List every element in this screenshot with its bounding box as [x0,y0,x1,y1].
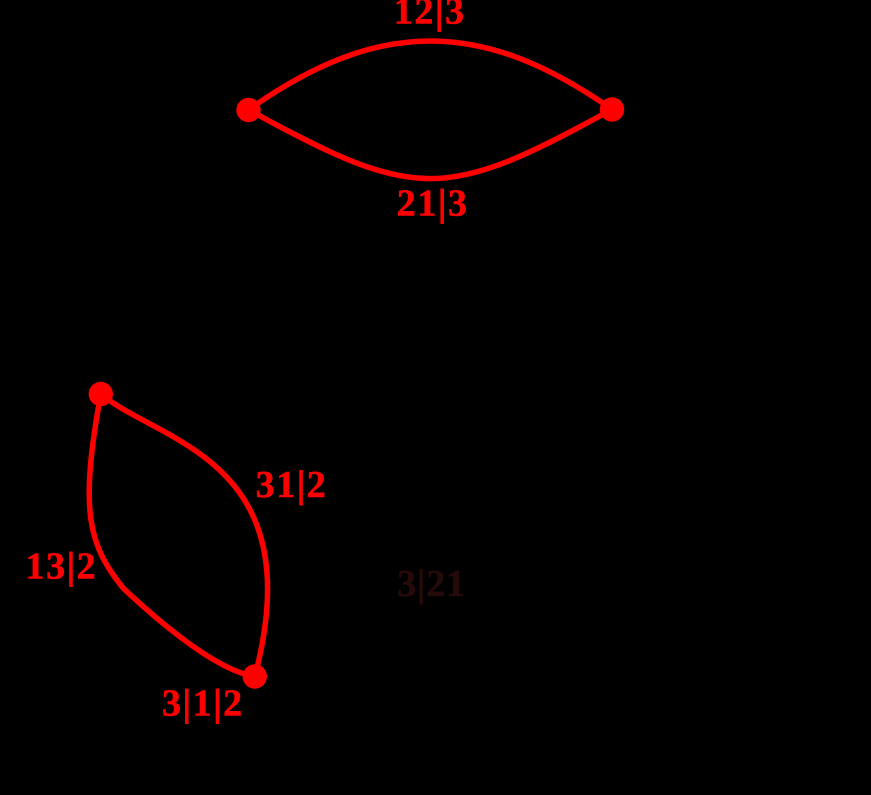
edge 12|3 (top arc of upper lens) [249,41,613,110]
vertex right (upper lens) [600,97,624,121]
edge 31|2 (right arc of lower lens) [101,394,268,677]
svg-text:3|1|2: 3|1|2 [162,683,244,725]
svg-text:3|21: 3|21 [397,563,466,605]
label 12|3 [394,0,466,32]
label 3|1|2 [162,683,244,725]
vertex left (upper lens) [236,98,260,122]
svg-text:12|3: 12|3 [394,0,466,32]
label 21|3 [397,182,469,224]
svg-text:21|3: 21|3 [397,182,469,224]
label 31|2 [256,464,328,506]
label 13|2 [26,546,98,588]
label 3|21 (faint dark) [397,563,466,605]
edge 13|2 (left arc of lower lens) [89,394,255,677]
svg-text:13|2: 13|2 [26,546,98,588]
edge 21|3 (bottom arc of upper lens) [249,109,613,178]
vertex top (lower lens) [89,382,113,406]
vertex bottom (lower lens) [243,664,267,688]
svg-text:31|2: 31|2 [256,464,328,506]
